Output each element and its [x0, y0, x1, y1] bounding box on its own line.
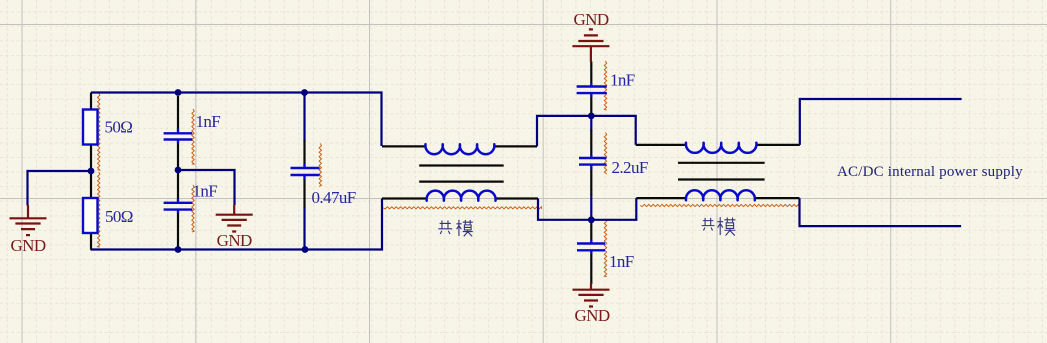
svg-text:GND: GND	[10, 236, 45, 255]
pin choke L1 out bottom	[496, 197, 539, 199]
svg-text:2.2uF: 2.2uF	[612, 158, 648, 177]
capacitor C5 2.2uF plates	[579, 155, 607, 170]
junction top rail / C1	[175, 89, 182, 96]
pin R1 bottom	[90, 145, 92, 172]
pin C5 top	[590, 130, 592, 155]
pin C1 top	[177, 96, 179, 129]
resistor R? 50ohm top body	[83, 110, 98, 145]
wire center top rail	[537, 116, 636, 146]
pin C6 bottom	[590, 254, 592, 284]
svg-text:50Ω: 50Ω	[105, 118, 133, 137]
pin R2 top	[90, 171, 92, 198]
inductor choke L2 top winding	[686, 143, 757, 153]
erc marker beside C4	[604, 61, 606, 110]
svg-text:GND: GND	[574, 306, 609, 325]
wire C3 to bottom rail	[303, 208, 305, 250]
pin choke L1 in bottom	[382, 197, 427, 199]
ground GND4 bottom symbol	[573, 283, 610, 307]
svg-text:1nF: 1nF	[610, 70, 635, 89]
pin choke L2 out top	[757, 144, 800, 146]
pin C6 top	[590, 220, 592, 240]
pin C2 top	[177, 170, 179, 199]
pin choke L2 out bottom	[755, 197, 800, 199]
pin C3 bottom	[303, 180, 305, 209]
capacitor C2 1nF plates	[164, 199, 193, 214]
wire cap midpoint to GND2	[178, 170, 235, 205]
wire choke2 bottom output to right rail	[800, 198, 962, 226]
pin choke L2 in bottom	[636, 197, 686, 199]
erc marker beside R1	[98, 93, 100, 170]
erc marker beside C2	[192, 185, 194, 232]
pin choke L1 in top	[382, 145, 426, 147]
junction center top rail / C4 C5	[588, 113, 595, 120]
wire bottom-left rail N node	[91, 199, 383, 250]
junction bottom rail / C2	[175, 246, 182, 253]
erc marker under choke L2	[640, 204, 799, 206]
svg-text:50Ω: 50Ω	[105, 207, 133, 226]
wire center bottom rail	[538, 198, 636, 220]
svg-text:AC/DC internal power supply: AC/DC internal power supply	[837, 164, 1023, 180]
wire center rail to C5	[590, 116, 592, 131]
wire mid junction to GND1	[28, 171, 92, 206]
pin choke L1 out top	[494, 145, 537, 147]
ground GND1 symbol	[10, 205, 47, 235]
pin R1 top	[90, 93, 92, 110]
pin C2 bottom	[177, 214, 179, 250]
junction top rail / C3	[301, 89, 308, 96]
wire C5 to center bottom rail	[590, 194, 592, 220]
erc marker beside C1	[192, 109, 194, 164]
junction between resistors	[88, 168, 95, 175]
pin choke L2 in top	[636, 144, 686, 146]
junction center bottom rail / C5 C6	[588, 216, 595, 223]
label common-mode choke L1 (gong mo)	[438, 220, 473, 237]
wire top-left rail L node	[91, 93, 382, 147]
inductor choke L1 top winding	[425, 144, 494, 154]
wire choke2 top output to right rail	[800, 99, 962, 145]
pin C4 top	[590, 62, 592, 83]
junction between C1 C2	[175, 167, 182, 174]
svg-text:1nF: 1nF	[193, 181, 218, 200]
capacitor C4 1nF plates	[577, 83, 607, 98]
erc marker beside C6	[604, 219, 606, 277]
junction bottom rail / C3	[302, 246, 309, 253]
erc marker beside C3	[319, 144, 321, 187]
svg-text:1nF: 1nF	[609, 252, 634, 271]
erc marker beside R2	[98, 172, 100, 247]
svg-text:0.47uF: 0.47uF	[312, 188, 356, 207]
label common-mode choke L2 (gong mo)	[702, 217, 736, 235]
svg-text:GND: GND	[217, 231, 252, 250]
wire top rail to C3	[303, 93, 305, 142]
pin C3 top	[303, 140, 305, 164]
ground GND2 symbol	[216, 205, 253, 232]
core choke L2	[678, 163, 765, 180]
svg-text:GND: GND	[573, 10, 608, 29]
pin C5 bottom	[590, 170, 592, 196]
inductor choke L1 bottom winding	[427, 191, 496, 201]
resistor R? 50ohm bottom body	[83, 198, 98, 233]
pin C4 bottom	[590, 97, 592, 116]
ground GND3 top symbol	[572, 29, 609, 62]
capacitor C1 1nF plates	[164, 129, 193, 144]
pin C1 bottom	[177, 144, 179, 171]
capacitor C3 0.47uF plates	[291, 164, 320, 180]
core choke L1	[419, 166, 504, 182]
erc marker under choke L1	[383, 207, 542, 209]
capacitor C6 1nF plates	[577, 240, 605, 255]
erc marker beside C5	[604, 133, 606, 175]
pin R2 bottom	[90, 233, 92, 250]
inductor choke L2 bottom winding	[686, 190, 755, 200]
svg-text:1nF: 1nF	[196, 112, 221, 131]
